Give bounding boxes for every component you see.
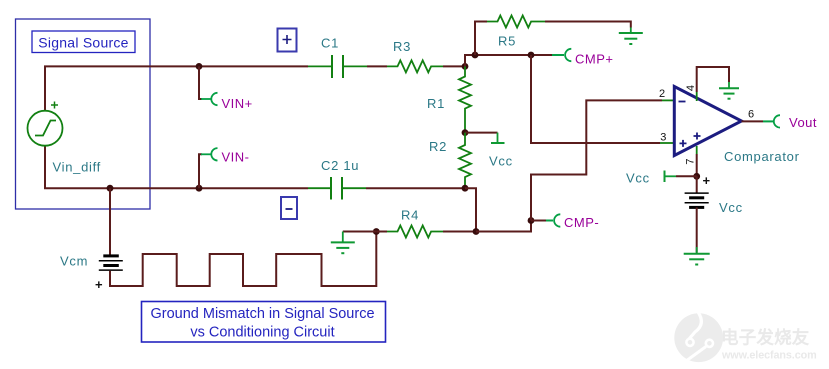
svg-text:4: 4 xyxy=(685,85,697,91)
svg-text:Vout: Vout xyxy=(789,115,817,130)
junction CMP- tap xyxy=(528,217,535,224)
wire VIN- port stub xyxy=(199,154,202,188)
svg-text:+: + xyxy=(703,173,711,188)
wire pin 2 green stub xyxy=(662,99,674,101)
port CMP- xyxy=(531,214,599,230)
wire Vcc stub left xyxy=(676,175,697,177)
wire VIN- bottom from source to C2 xyxy=(45,146,308,188)
port VIN- xyxy=(201,148,250,164)
svg-text:Vcm: Vcm xyxy=(60,254,88,269)
watermark logo xyxy=(674,312,816,363)
junction R4 right node xyxy=(473,228,480,235)
junction VIN- stub xyxy=(196,185,203,192)
wire node down to R4 rail xyxy=(465,188,476,231)
wire C1 to R3 xyxy=(367,65,387,67)
svg-text:C2 1u: C2 1u xyxy=(321,158,359,173)
wire battery top lead xyxy=(109,188,111,254)
resistor R5 xyxy=(487,16,545,49)
svg-text:VIN+: VIN+ xyxy=(222,96,253,111)
power Vcc bar right xyxy=(626,171,676,186)
junction R5 tap xyxy=(472,52,479,59)
port box + xyxy=(278,29,297,52)
svg-text:电子发烧友: 电子发烧友 xyxy=(721,328,810,348)
svg-text:www.elecfans.com: www.elecfans.com xyxy=(721,350,817,362)
wire pin 6 output xyxy=(742,120,764,122)
svg-text:Comparator: Comparator xyxy=(724,149,800,164)
wire C2 to node xyxy=(366,187,465,189)
svg-text:CMP-: CMP- xyxy=(564,215,599,230)
wire node to CMP- riser xyxy=(476,221,531,232)
wire node to R4 xyxy=(376,231,387,233)
junction ground mismatch node xyxy=(373,228,380,235)
svg-text:R5: R5 xyxy=(498,34,516,49)
wire VIN+ top from source to C1 xyxy=(45,66,308,110)
wire battery bottom lead xyxy=(696,207,698,252)
port VIN+ xyxy=(201,93,253,111)
svg-text:Vin_diff: Vin_diff xyxy=(53,160,102,175)
junction pin 7 / Vcc xyxy=(693,173,700,180)
junction VIN+ stub xyxy=(196,63,203,70)
svg-text:+: + xyxy=(95,277,103,292)
wire node up to CMP+ rail xyxy=(465,55,552,66)
svg-text:Ground Mismatch in Signal Sour: Ground Mismatch in Signal Source xyxy=(150,306,374,322)
svg-text:Vcc: Vcc xyxy=(719,200,743,215)
svg-text:R3: R3 xyxy=(393,39,411,54)
port box - xyxy=(281,197,297,219)
wire CMP- to pin 2 xyxy=(531,100,662,220)
power Vcc bar mid xyxy=(489,133,513,169)
wire battery top lead xyxy=(696,176,698,192)
wire CMP+ to pin 3 xyxy=(531,55,660,143)
junction Vcm battery top xyxy=(107,185,114,192)
wire to Vcc stub xyxy=(465,132,498,134)
junction C2/R2 node xyxy=(462,185,469,192)
wire pin 4 to top ground xyxy=(697,67,729,101)
resistor R4 xyxy=(387,208,443,238)
svg-text:7: 7 xyxy=(685,158,697,164)
label C2 1u xyxy=(321,158,359,173)
wire R5 to ground xyxy=(545,22,631,28)
wire pin 3 green stub xyxy=(660,142,674,144)
ground at pin 4 xyxy=(719,82,739,99)
resistor R1 xyxy=(427,66,471,132)
voltage source V Vin_diff xyxy=(28,102,63,146)
capacitor C1 xyxy=(308,36,367,79)
svg-text:Vcc: Vcc xyxy=(489,154,513,169)
ground at R4 xyxy=(331,232,355,254)
resistor R3 xyxy=(387,39,443,72)
port Vout xyxy=(763,115,817,130)
svg-text:R2: R2 xyxy=(429,139,447,154)
ground mismatch text box xyxy=(142,302,386,343)
Signal Source label box xyxy=(32,31,135,53)
svg-text:C1: C1 xyxy=(321,36,339,51)
label + at battery xyxy=(703,173,711,188)
svg-text:6: 6 xyxy=(748,109,754,121)
svg-text:R1: R1 xyxy=(427,96,445,111)
ground below battery xyxy=(684,247,710,265)
battery Vcc xyxy=(685,193,743,215)
port CMP+ xyxy=(552,49,613,67)
svg-text:CMP+: CMP+ xyxy=(575,52,613,67)
wire pin 7 to junction xyxy=(696,146,698,176)
wire node to ground stub xyxy=(343,231,377,233)
svg-text:Signal Source: Signal Source xyxy=(38,35,128,51)
wire R3 to node xyxy=(443,65,465,67)
label Vin_diff xyxy=(53,160,102,175)
op-amp comparator U1 xyxy=(659,85,800,165)
junction R1/R2 xyxy=(462,129,469,136)
ground at R5 xyxy=(619,28,643,45)
junction CMP+ tap xyxy=(528,52,535,59)
svg-text:Vcc: Vcc xyxy=(626,171,650,186)
resistor R2 xyxy=(429,133,471,189)
signal source bounding box xyxy=(16,19,151,209)
svg-text:vs Conditioning Circuit: vs Conditioning Circuit xyxy=(190,325,334,341)
svg-text:VIN-: VIN- xyxy=(222,150,250,165)
battery Vcm xyxy=(60,254,123,293)
svg-text:2: 2 xyxy=(659,88,665,100)
wire R5 left riser xyxy=(475,22,487,56)
svg-text:R4: R4 xyxy=(401,208,419,223)
capacitor C2 xyxy=(308,177,366,200)
svg-text:3: 3 xyxy=(660,132,666,144)
wire R4 to node xyxy=(443,231,476,233)
wire square wave ground mismatch xyxy=(110,232,376,287)
junction R3/R1 node xyxy=(462,63,469,70)
wire VIN+ port stub xyxy=(199,66,202,99)
